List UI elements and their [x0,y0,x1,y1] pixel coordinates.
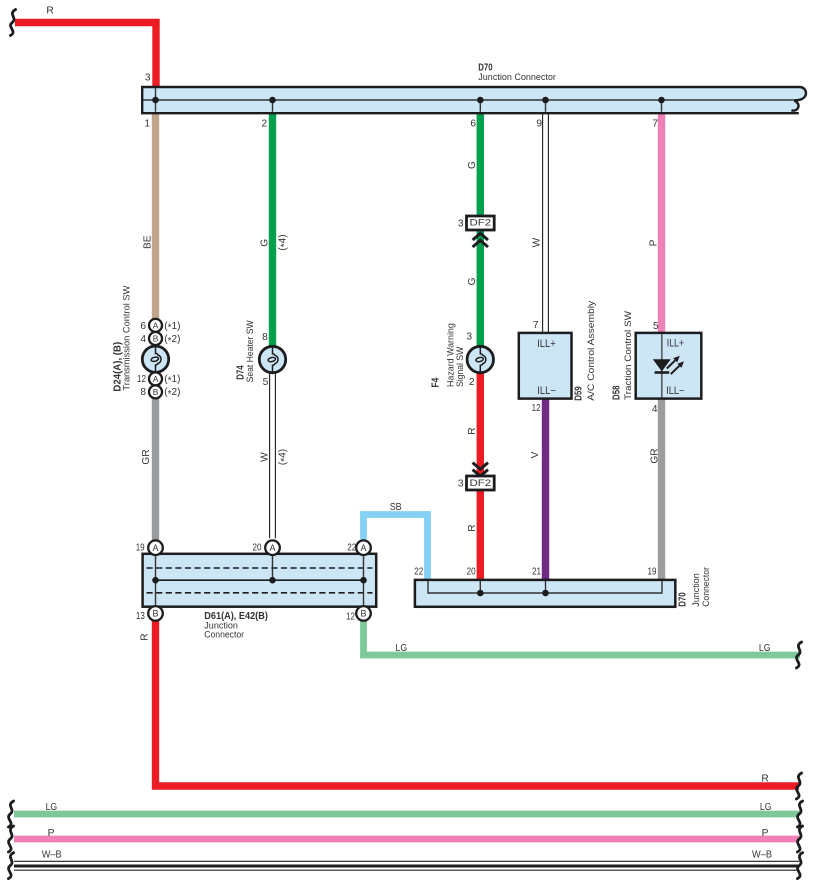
svg-text:D59: D59 [574,386,585,401]
svg-text:6: 6 [140,321,146,332]
svg-text:Seat Heater SW: Seat Heater SW [245,320,256,383]
svg-text:W: W [532,237,543,247]
svg-text:LG: LG [760,802,772,813]
svg-text:GR: GR [650,448,661,463]
svg-text:P: P [649,239,660,246]
svg-text:5: 5 [653,321,659,332]
svg-text:D58: D58 [612,385,623,400]
svg-text:20: 20 [467,567,476,578]
svg-text:BE: BE [142,235,153,249]
svg-text:W–B: W–B [752,849,772,860]
svg-text:Connector: Connector [701,566,712,606]
svg-text:21: 21 [532,567,541,578]
svg-text:R: R [46,6,53,17]
svg-text:2: 2 [469,377,475,388]
svg-text:A/C Control Assembly: A/C Control Assembly [586,301,597,401]
svg-text:ILL−: ILL− [537,385,556,397]
svg-text:(*4): (*4) [278,234,291,250]
svg-text:V: V [530,451,541,458]
svg-text:F4: F4 [431,377,442,387]
svg-text:(*2): (*2) [164,334,180,347]
svg-text:R: R [467,524,478,531]
svg-text:D70: D70 [678,592,689,607]
svg-text:ILL+: ILL+ [537,338,556,350]
svg-text:(*2): (*2) [164,387,180,400]
svg-text:G: G [467,161,478,169]
svg-text:(*1): (*1) [164,374,180,387]
svg-text:2: 2 [262,119,268,130]
svg-text:Signal SW: Signal SW [455,346,466,387]
svg-text:(*1): (*1) [164,321,180,334]
svg-text:P: P [762,828,769,839]
svg-text:13: 13 [136,611,145,622]
svg-text:R: R [140,633,151,640]
svg-text:R: R [761,773,768,784]
svg-text:12: 12 [137,374,146,385]
svg-text:W–B: W–B [42,849,62,860]
svg-text:DF2: DF2 [470,478,492,489]
svg-text:LG: LG [46,802,58,813]
svg-text:Connector: Connector [204,629,244,640]
svg-text:G: G [467,277,478,285]
svg-text:SB: SB [390,502,402,513]
svg-text:3: 3 [458,218,464,229]
svg-text:7: 7 [652,119,658,130]
svg-text:DF2: DF2 [470,218,492,229]
svg-text:5: 5 [263,377,269,388]
svg-text:Junction Connector: Junction Connector [478,72,556,83]
svg-text:7: 7 [533,320,539,331]
svg-text:LG: LG [759,643,771,654]
svg-text:G: G [259,239,270,247]
svg-text:22: 22 [414,567,423,578]
svg-text:3: 3 [458,478,464,489]
svg-text:6: 6 [470,119,476,130]
svg-text:W: W [259,452,270,462]
svg-text:GR: GR [141,449,152,464]
svg-text:8: 8 [140,387,146,398]
svg-text:(*4): (*4) [278,449,291,465]
svg-text:LG: LG [396,643,408,654]
svg-text:ILL−: ILL− [666,385,684,397]
svg-text:ILL+: ILL+ [667,338,684,350]
svg-text:P: P [48,828,55,839]
svg-text:19: 19 [136,543,145,554]
svg-text:Traction Control SW: Traction Control SW [623,310,634,400]
svg-text:12: 12 [532,403,541,414]
svg-text:8: 8 [262,332,268,343]
svg-text:3: 3 [145,73,151,84]
svg-text:12: 12 [346,611,355,622]
svg-text:3: 3 [466,332,472,343]
svg-text:4: 4 [140,334,146,345]
svg-text:9: 9 [536,119,542,130]
svg-text:22: 22 [347,543,356,554]
svg-text:1: 1 [144,119,150,130]
svg-text:R: R [467,427,478,434]
svg-text:20: 20 [253,543,262,554]
svg-text:19: 19 [648,567,657,578]
svg-text:4: 4 [652,404,658,415]
svg-text:Transmission Control SW: Transmission Control SW [122,285,133,391]
